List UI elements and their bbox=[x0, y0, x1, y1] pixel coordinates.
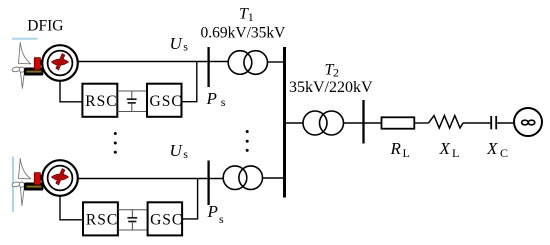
generator G1 bbox=[42, 45, 78, 81]
wire rotor 2 bbox=[60, 196, 83, 220]
svg-text:s: s bbox=[183, 40, 188, 54]
transformer T2 bbox=[303, 111, 344, 135]
wire stator 1 bbox=[78, 61, 228, 63]
svg-text:L: L bbox=[452, 146, 459, 160]
capacitor DC link 2 bbox=[127, 210, 137, 230]
svg-text:R: R bbox=[390, 139, 402, 158]
capacitor XC bbox=[491, 116, 496, 129]
svg-text:s: s bbox=[221, 95, 226, 109]
wire DC link 1 bottom bbox=[117, 111, 147, 113]
ellipsis right bbox=[246, 130, 249, 152]
wire main bus to T2 bbox=[286, 122, 303, 124]
converter GSC1 bbox=[147, 84, 183, 117]
svg-text:C: C bbox=[500, 146, 508, 160]
capacitor DC link 1 bbox=[127, 91, 137, 112]
svg-text:DFIG: DFIG bbox=[27, 18, 63, 35]
inductor XL zigzag bbox=[429, 116, 464, 128]
svg-text:U: U bbox=[170, 34, 184, 53]
svg-text:35kV/220kV: 35kV/220kV bbox=[289, 79, 373, 96]
svg-text:X: X bbox=[439, 139, 451, 158]
svg-text:P: P bbox=[206, 89, 217, 108]
wire T1 to main bus bbox=[268, 61, 284, 63]
svg-text:s: s bbox=[219, 212, 224, 226]
svg-text:2: 2 bbox=[333, 66, 339, 80]
svg-text:X: X bbox=[486, 139, 498, 158]
wire GSC2 output bbox=[182, 179, 198, 219]
svg-text:U: U bbox=[170, 141, 184, 160]
wire rotor 1 bbox=[60, 81, 82, 102]
wire bus to RL bbox=[365, 122, 382, 124]
bus B2 stator bus bbox=[207, 161, 209, 206]
svg-text:GSC: GSC bbox=[150, 212, 183, 229]
infinite bus source bbox=[514, 108, 542, 136]
converter GSC2 bbox=[148, 202, 184, 235]
wire RL to XL bbox=[414, 122, 428, 124]
bus B1 stator bus bbox=[207, 47, 209, 87]
wire DC link 2 top bbox=[118, 209, 148, 211]
bus 220kV bar bbox=[362, 100, 364, 144]
svg-text:GSC: GSC bbox=[150, 93, 183, 110]
svg-text:0.69kV/35kV: 0.69kV/35kV bbox=[201, 25, 287, 42]
wind turbine WT2 bbox=[12, 157, 50, 213]
transformer unit2 bbox=[223, 166, 262, 190]
wire T2 to 220kV bus bbox=[344, 122, 363, 124]
wire XC to infinite bus bbox=[497, 122, 514, 124]
converter RSC1 bbox=[82, 84, 117, 117]
transformer T1 bbox=[228, 51, 267, 75]
converter RSC2 bbox=[83, 202, 118, 235]
wind turbine WT1 bbox=[12, 39, 50, 89]
svg-text:s: s bbox=[183, 147, 188, 161]
wire GSC1 output bbox=[182, 62, 197, 102]
wire DC link 2 bottom bbox=[118, 229, 148, 231]
svg-text:RSC: RSC bbox=[85, 93, 117, 110]
ellipsis left bbox=[114, 132, 117, 154]
bus 35kV main bbox=[283, 47, 286, 198]
svg-text:RSC: RSC bbox=[86, 212, 118, 229]
generator G2 bbox=[42, 160, 78, 196]
resistor RL bbox=[382, 117, 415, 128]
wire XL to XC bbox=[463, 122, 490, 124]
svg-text:1: 1 bbox=[248, 10, 254, 24]
wire stator 2 bbox=[78, 178, 224, 180]
svg-text:P: P bbox=[207, 202, 218, 221]
svg-text:L: L bbox=[403, 146, 410, 160]
wire DC link 1 top bbox=[117, 90, 147, 92]
wire transformer2 to main bus bbox=[263, 177, 284, 179]
